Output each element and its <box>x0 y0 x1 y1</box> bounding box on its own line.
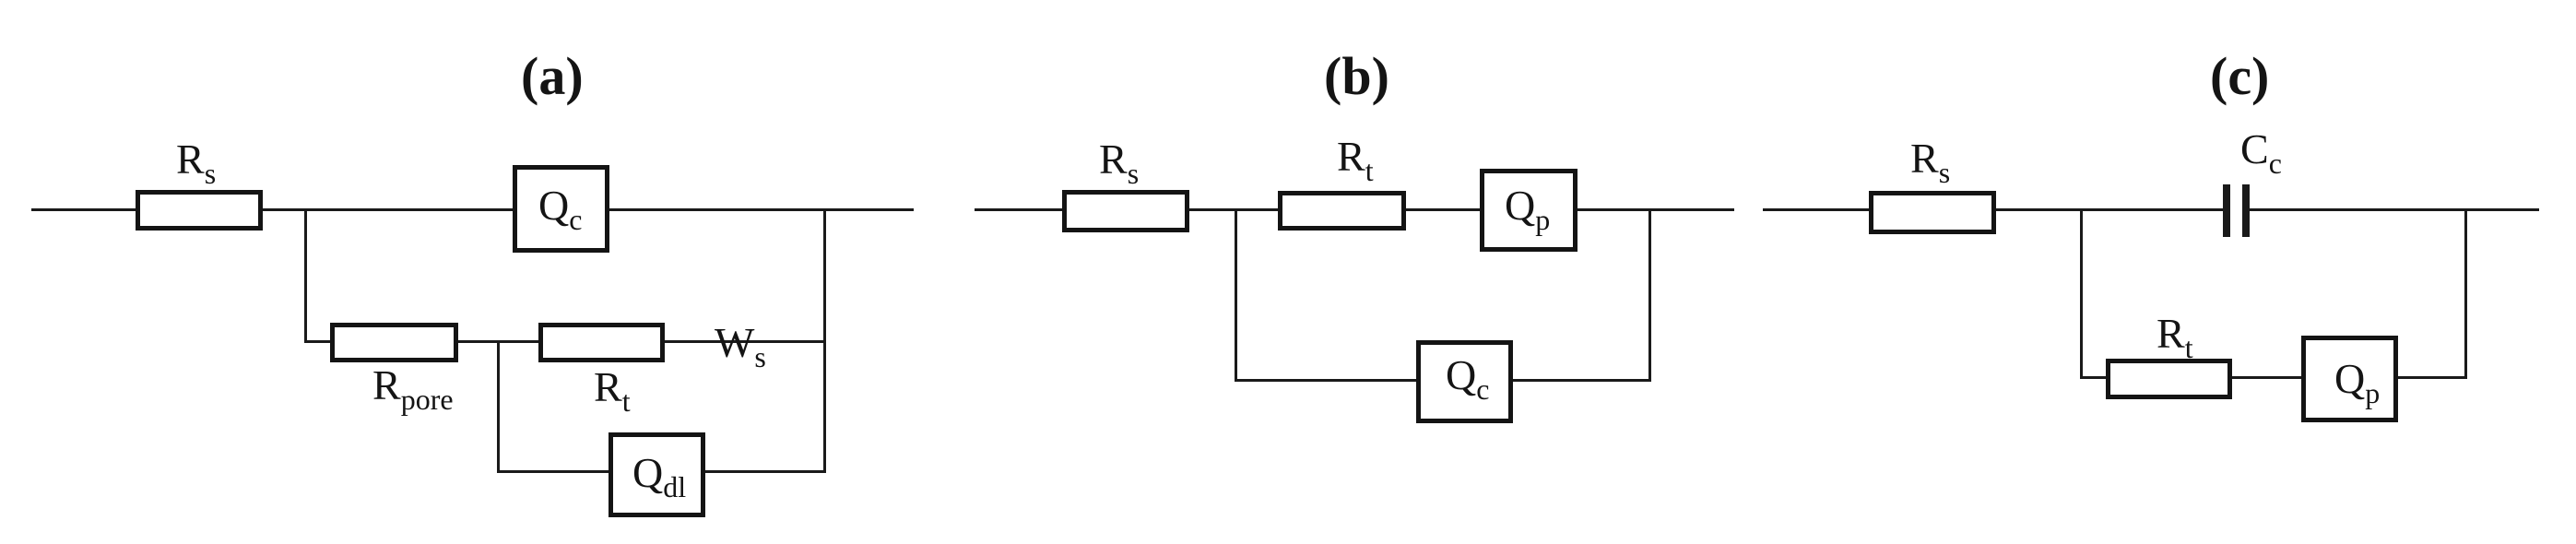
label Rt (c) <box>2157 313 2193 362</box>
wire: left branch vertical of panel b <box>1235 208 1237 382</box>
CPE box Qc (b) <box>1416 340 1513 423</box>
label Qc (a) <box>538 184 582 234</box>
wire: junction vertical between Rpore and Rt down to Qdl rail <box>497 340 500 473</box>
resistor Rpore <box>330 323 458 362</box>
capacitor Cc left plate <box>2223 184 2230 237</box>
label Ws (Warburg) on middle rail <box>715 322 766 372</box>
label Rs (c) <box>1910 137 1950 187</box>
resistor Rs (a) <box>136 190 263 231</box>
resistor Rt (b) <box>1278 191 1406 231</box>
label Rt (b) <box>1337 136 1374 185</box>
CPE box Qdl <box>609 432 705 517</box>
wire: bottom rail through Rt and Qp (c) <box>2080 376 2467 379</box>
wire: left lead into Rs and main top rail to right lead <box>31 208 914 211</box>
panel label (c) <box>2210 50 2269 103</box>
wire: left branch vertical from top rail down to middle rail <box>304 208 307 343</box>
label Qc (b) <box>1446 354 1489 404</box>
wire: middle rail (Rpore - Rt - Ws) <box>304 340 825 343</box>
wire: left branch vertical of panel c <box>2080 208 2083 379</box>
wire: left lead of panel c up to capacitor <box>1763 208 2223 211</box>
label Rpore <box>372 364 454 414</box>
wire: bottom rail through Qc (b) <box>1235 379 1651 382</box>
resistor Rt (a) <box>538 323 665 362</box>
capacitor Cc right plate <box>2242 184 2250 237</box>
label Qdl <box>632 452 686 502</box>
wire: right branch vertical of panel c <box>2464 208 2467 379</box>
resistor Rs (c) <box>1869 191 1996 234</box>
wire: from capacitor to right lead of panel c <box>2250 208 2539 211</box>
wire: bottom rail through Qdl <box>497 470 826 473</box>
CPE box Qc (a) <box>513 165 609 253</box>
label Cc <box>2240 128 2282 178</box>
wire: left lead and main rail of panel b <box>975 208 1734 211</box>
resistor Rs (b) <box>1062 190 1189 232</box>
wire: right vertical joining top rail, middle rail and Qdl rail <box>823 208 826 473</box>
label Qp (c) <box>2334 358 2380 408</box>
wire: right branch vertical of panel b <box>1648 208 1651 382</box>
panel label (a) <box>521 50 584 103</box>
CPE box Qp (c) <box>2301 336 2398 422</box>
resistor Rt (c) <box>2106 359 2232 399</box>
label Rs (a) <box>176 138 216 188</box>
panel label (b) <box>1324 50 1389 103</box>
label Rs (b) <box>1099 138 1139 188</box>
CPE box Qp (b) <box>1480 169 1578 252</box>
label Qp (b) <box>1505 184 1550 234</box>
label Rt (a) <box>594 366 631 416</box>
